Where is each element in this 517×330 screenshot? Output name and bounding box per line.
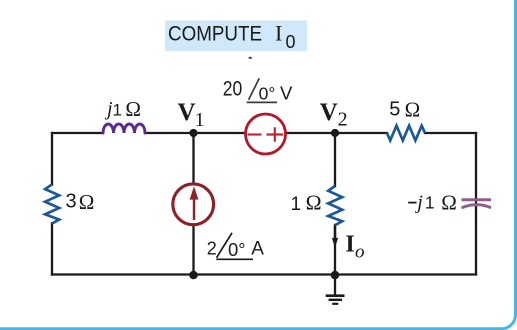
svg-text:0: 0 bbox=[286, 32, 296, 52]
svg-text:Ω: Ω bbox=[441, 190, 457, 214]
svg-text:20: 20 bbox=[223, 77, 243, 100]
svg-text:V: V bbox=[178, 99, 196, 126]
svg-text:1: 1 bbox=[425, 193, 435, 213]
svg-text:0°: 0° bbox=[259, 84, 276, 104]
svg-text:Ω: Ω bbox=[306, 191, 322, 215]
svg-text:I: I bbox=[275, 20, 282, 45]
svg-text:o: o bbox=[355, 241, 365, 262]
svg-text:V: V bbox=[280, 83, 293, 104]
svg-text:2: 2 bbox=[338, 109, 348, 131]
svg-text:I: I bbox=[345, 232, 354, 258]
svg-text:Ω: Ω bbox=[79, 190, 95, 214]
svg-text:2: 2 bbox=[207, 238, 217, 258]
svg-text:0°: 0° bbox=[228, 239, 246, 260]
svg-text:3: 3 bbox=[66, 191, 77, 213]
svg-text:A: A bbox=[251, 239, 264, 260]
svg-text:Ω: Ω bbox=[125, 97, 141, 121]
svg-text:1: 1 bbox=[291, 194, 302, 215]
svg-text:1: 1 bbox=[113, 100, 122, 119]
svg-text:5: 5 bbox=[389, 99, 400, 121]
svg-text:COMPUTE: COMPUTE bbox=[168, 22, 262, 45]
svg-text:V: V bbox=[320, 99, 338, 126]
svg-text:Ω: Ω bbox=[405, 98, 421, 122]
svg-text:1: 1 bbox=[195, 109, 205, 131]
